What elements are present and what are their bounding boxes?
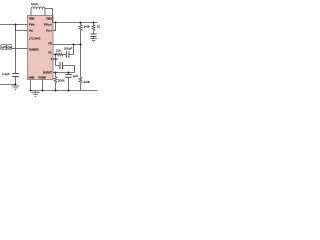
svg-text:2.2µF: 2.2µF — [2, 72, 10, 76]
wire divider top lead — [80, 23, 82, 25]
wire RUN/SS — [12, 48, 28, 50]
node burst rail junction 2 — [68, 72, 70, 74]
node FB/comp junction — [73, 44, 75, 46]
resistor R3 15k (VC series) — [56, 53, 66, 56]
svg-text:PGND: PGND — [39, 76, 47, 80]
resistor R5 snubber — [92, 25, 95, 35]
wire FB — [53, 44, 81, 46]
wire VIN input — [0, 24, 28, 26]
wire divider middle — [80, 45, 82, 78]
node SW2/rail junction — [55, 22, 57, 24]
switch OFF box — [1, 45, 7, 50]
wire 1uF cap top lead — [68, 73, 70, 75]
resistor R2 200k — [79, 77, 82, 91]
resistor R1 340k — [79, 25, 82, 45]
svg-text:200k: 200k — [58, 78, 65, 82]
capacitor C5 1uF plates — [65, 75, 71, 78]
node cap/gnd rail junction — [15, 84, 17, 86]
wire inductor right end over to rail — [45, 9, 53, 23]
wire burst resistor top lead — [55, 73, 57, 77]
capacitor C3 300pF plates — [66, 51, 69, 58]
svg-text:340k: 340k — [84, 25, 91, 29]
ground input — [12, 86, 20, 90]
ground main symbol — [31, 91, 39, 97]
capacitor C1 2.2uF plates — [12, 74, 19, 77]
wire GND pin drop 1 — [30, 80, 32, 91]
background — [0, 0, 100, 100]
capacitor C6 snubber plates — [91, 34, 97, 37]
svg-text:FB: FB — [48, 41, 52, 45]
wire snubber top lead — [93, 23, 95, 25]
node gnd rail junction 2 — [68, 90, 70, 92]
ground snubber — [90, 39, 96, 43]
svg-text:VC: VC — [48, 50, 52, 54]
wire cap to FB node — [69, 45, 74, 55]
svg-text:SW2: SW2 — [46, 17, 52, 21]
node VC junction — [55, 54, 57, 56]
svg-text:200k: 200k — [84, 80, 91, 84]
node burst rail junction 1 — [55, 72, 57, 74]
node gnd drop junction 2 — [42, 90, 44, 92]
svg-text:LTC3440: LTC3440 — [29, 37, 41, 41]
svg-text:SW1: SW1 — [29, 17, 35, 21]
wire VIN to second pin — [16, 25, 28, 31]
resistor R4 200k (burst) — [54, 77, 57, 91]
capacitor C4 4.7nF plates — [60, 62, 63, 69]
wire VC — [53, 54, 56, 56]
wire stub rail to VOUT pin — [53, 23, 56, 31]
wire 4.7nF to BURST rail — [63, 66, 75, 73]
node FB junction — [80, 44, 82, 46]
wire PGND pin drop 2 — [42, 80, 44, 91]
wire snubber cap to ground — [93, 37, 95, 39]
svg-text:BURST: BURST — [43, 70, 52, 74]
wire VOUT rail — [53, 22, 98, 24]
wire 1uF to ground rail — [68, 77, 70, 90]
wire VC down branch — [56, 55, 61, 66]
svg-text:GND: GND — [29, 76, 35, 80]
node VIN junction — [15, 24, 17, 26]
switch ON box — [7, 45, 12, 50]
node gnd rail junction 1 — [55, 90, 57, 92]
svg-text:10µH: 10µH — [31, 2, 38, 6]
svg-text:OFF: OFF — [1, 46, 6, 49]
svg-text:ON: ON — [8, 46, 12, 49]
wire BURST rail — [53, 72, 75, 74]
svg-text:10k: 10k — [56, 49, 61, 53]
wire ground rail — [31, 90, 98, 92]
svg-text:4.7nF: 4.7nF — [51, 57, 59, 61]
node snubber top junction — [93, 22, 95, 24]
wire input cap branch — [15, 25, 17, 74]
svg-text:1µF: 1µF — [73, 74, 78, 78]
IC U1 LTC3440 body — [28, 16, 54, 80]
svg-text:RUN/SS: RUN/SS — [29, 47, 39, 51]
wire cap to ground wire — [0, 77, 16, 85]
inductor L1 coil — [31, 7, 45, 16]
node gnd drop junction 1 — [30, 90, 32, 92]
node divider top junction — [80, 22, 82, 24]
svg-text:300pF: 300pF — [64, 46, 73, 50]
svg-text:20k: 20k — [97, 25, 100, 29]
